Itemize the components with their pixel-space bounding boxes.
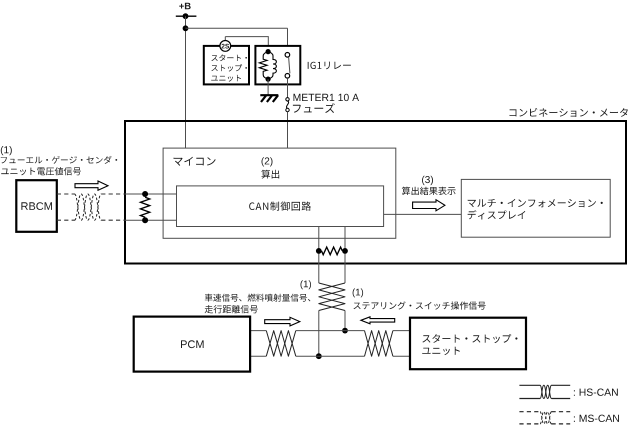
block arrow vehicle speed bbox=[265, 317, 300, 326]
pin 2S label bbox=[222, 44, 230, 49]
wire CAN-L drop inside bbox=[344, 227, 346, 284]
start-stop unit (top) box bbox=[204, 46, 249, 85]
microcomputer box bbox=[163, 148, 396, 238]
wire bus bottom middle bbox=[296, 355, 365, 357]
junction termination bottom bbox=[142, 217, 148, 223]
PCM label bbox=[181, 340, 204, 348]
wire MS-CAN high dashed b bbox=[101, 193, 125, 195]
twisted pair meter drop b bbox=[319, 283, 345, 311]
legend MS-CAN top wire bbox=[519, 411, 540, 413]
start-stop unit bottom line1 bbox=[422, 334, 517, 343]
legend HS-CAN label bbox=[574, 389, 618, 396]
relay coil bottom junction bbox=[266, 77, 271, 82]
wire MS-CAN high dashed bbox=[57, 193, 75, 195]
combination meter box bbox=[125, 121, 626, 264]
start-stop unit line3 bbox=[211, 75, 241, 82]
wire CAN-L drop lower bbox=[344, 311, 346, 331]
twisted pair meter drop a bbox=[319, 283, 345, 311]
wire MS-CAN low dashed bbox=[57, 219, 75, 221]
wire CAN-H drop lower bbox=[318, 311, 320, 357]
wire MS-CAN low inside meter bbox=[125, 219, 177, 221]
pin 2S circle bbox=[220, 41, 231, 52]
signal fuel gauge line2 bbox=[1, 167, 81, 175]
start-stop unit bottom line2 bbox=[422, 347, 460, 355]
RBCM box bbox=[16, 180, 57, 232]
junction +B branch bbox=[183, 25, 189, 31]
wire fuse to combination meter bbox=[287, 112, 289, 148]
fuse element bbox=[286, 101, 288, 108]
relay coil resistor branch bbox=[259, 52, 268, 80]
legend HS-CAN top wire bbox=[519, 384, 540, 386]
start-stop unit line2 bbox=[211, 64, 247, 71]
signal fuel gauge line1 bbox=[1, 156, 117, 164]
step (3) label bbox=[422, 176, 433, 185]
fuse label METER1 10 A bbox=[294, 94, 360, 101]
step (2) caption calc bbox=[261, 170, 279, 179]
PCM box bbox=[134, 317, 250, 372]
wire bus top unit side bbox=[393, 330, 410, 332]
legend MS-CAN bottom wire bbox=[519, 423, 540, 425]
wire bus bottom unit side bbox=[393, 355, 410, 357]
combination meter label bbox=[510, 108, 628, 117]
block arrow fuel signal bbox=[75, 181, 108, 190]
CAN control circuit label bbox=[249, 202, 311, 211]
twisted pair MS-CAN a bbox=[75, 194, 102, 220]
junction bus top bbox=[342, 328, 348, 334]
twisted pair unit b bbox=[365, 331, 393, 357]
legend MS-CAN top wire b bbox=[552, 411, 571, 413]
wire MS-CAN high inside meter bbox=[125, 193, 177, 195]
twisted pair PCM b bbox=[266, 331, 296, 357]
relay IG1 label bbox=[308, 62, 351, 70]
node +B crossbar bbox=[176, 15, 197, 17]
signal vehicle speed line1 bbox=[205, 294, 311, 302]
twisted pair PCM a bbox=[266, 331, 296, 357]
junction termination top bbox=[142, 191, 148, 197]
legend MS-CAN twist b bbox=[540, 412, 552, 424]
step (2) label bbox=[262, 157, 273, 166]
junction resistor right bbox=[342, 248, 348, 254]
wire coil to ground bbox=[267, 79, 269, 95]
terminating resistor bottom bbox=[322, 247, 343, 255]
relay switch blade bbox=[289, 57, 290, 73]
multi information display box bbox=[461, 179, 610, 237]
wire bus bottom pcm side bbox=[250, 355, 266, 357]
wire MS-CAN low dashed b bbox=[101, 219, 125, 221]
legend HS-CAN twist a bbox=[540, 385, 552, 398]
fuse bottom terminal bbox=[286, 108, 289, 111]
junction +B bbox=[183, 13, 189, 19]
wire CAN to display bbox=[384, 213, 462, 215]
wire 2S horizontal bbox=[225, 37, 268, 52]
ground symbol bbox=[260, 95, 278, 102]
wire bus top pcm side bbox=[250, 330, 266, 332]
legend HS-CAN top wire b bbox=[552, 384, 571, 386]
legend MS-CAN label bbox=[574, 415, 619, 422]
RBCM label bbox=[21, 202, 52, 210]
terminating resistor left bbox=[141, 197, 150, 217]
wire CAN-H drop inside bbox=[318, 227, 320, 284]
start-stop unit (bottom) box bbox=[410, 318, 526, 370]
signal vehicle speed line2 bbox=[205, 305, 258, 313]
signal (1) fuel label num bbox=[1, 146, 12, 155]
start-stop unit line1 bbox=[211, 54, 247, 61]
wire 2S to relay coil bbox=[224, 37, 226, 41]
legend HS-CAN twist b bbox=[540, 385, 552, 398]
wire +B branch horizontal bbox=[186, 27, 288, 29]
legend HS-CAN bottom wire bbox=[519, 398, 540, 400]
wire to relay switch bbox=[287, 28, 289, 53]
twisted pair MS-CAN b bbox=[75, 194, 102, 220]
label (1) bottom left bbox=[301, 280, 312, 289]
display label line1 bbox=[468, 199, 603, 207]
wire +B vertical to microcomputer bbox=[185, 16, 187, 148]
relay IG1 box bbox=[255, 46, 300, 85]
legend MS-CAN bottom wire b bbox=[552, 423, 571, 425]
relay coil inductor branch bbox=[268, 52, 276, 80]
junction resistor left bbox=[316, 248, 322, 254]
wire switch to fuse bbox=[287, 78, 289, 97]
fuse top terminal bbox=[286, 98, 289, 101]
fuse label fuse bbox=[293, 103, 335, 113]
relay switch top contact bbox=[285, 53, 290, 58]
relay coil top junction bbox=[266, 49, 271, 54]
step (3) caption result display bbox=[402, 187, 456, 195]
signal steering switch bbox=[354, 301, 486, 309]
display label line2 bbox=[468, 210, 526, 219]
microcomputer label bbox=[174, 157, 216, 166]
label (1) bottom right bbox=[353, 288, 364, 297]
twisted pair unit a bbox=[365, 331, 393, 357]
relay switch bottom contact bbox=[285, 74, 290, 79]
power +B label bbox=[179, 3, 191, 10]
legend HS-CAN bottom wire b bbox=[552, 398, 571, 400]
legend MS-CAN twist a bbox=[540, 412, 552, 424]
block arrow result bbox=[413, 200, 445, 211]
junction bus bottom bbox=[316, 353, 322, 359]
CAN control circuit box bbox=[177, 186, 384, 227]
wire bus top middle bbox=[296, 330, 365, 332]
block arrow steering bbox=[361, 317, 395, 324]
